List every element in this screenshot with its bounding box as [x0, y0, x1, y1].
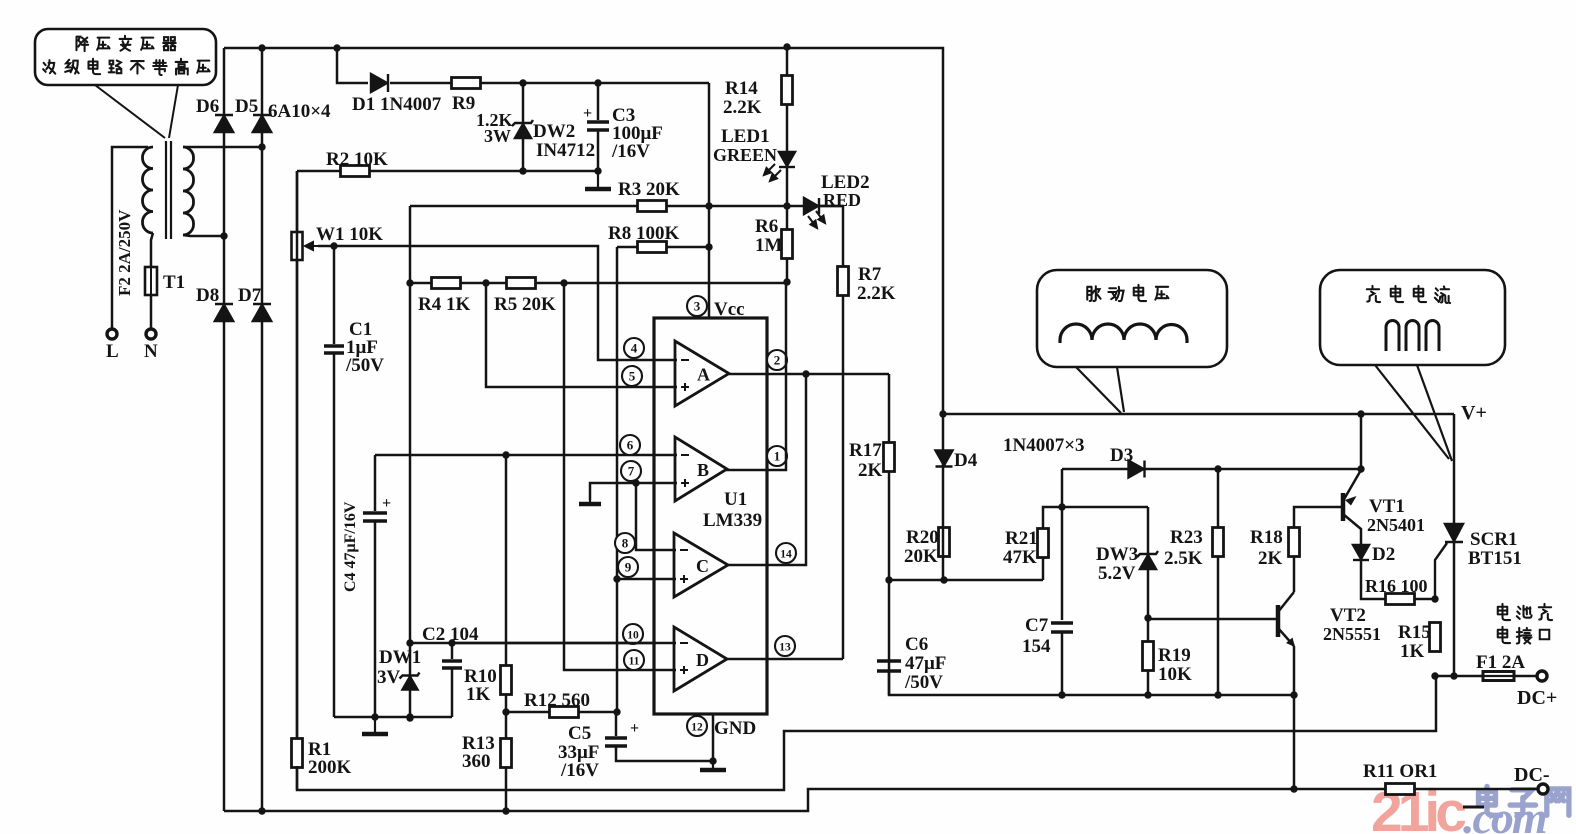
junction R3 drop / R4 line	[406, 279, 413, 286]
wire R3 left drop to DW1	[409, 206, 412, 718]
svg-text:R18: R18	[1250, 527, 1283, 548]
svg-text:5: 5	[629, 369, 636, 384]
transformer T1 core	[166, 141, 171, 239]
svg-text:R12 560: R12 560	[524, 690, 590, 711]
wire D2 to R16	[1361, 561, 1385, 599]
junction secondary top / D5 branch	[258, 143, 265, 150]
wire C3 bottom lead	[597, 130, 600, 171]
resistor R12	[550, 707, 579, 718]
op-amp U1C	[674, 533, 728, 597]
op-amp U1 LM339 box	[654, 318, 767, 714]
junction D5 branch / DC- rail	[258, 807, 265, 814]
svg-text:6: 6	[627, 438, 634, 453]
resistor R4	[432, 278, 461, 289]
svg-text:200K: 200K	[308, 757, 352, 778]
junction wiper / C1	[330, 242, 337, 249]
junction R8 drop / C plus line	[613, 575, 620, 582]
svg-text:2K: 2K	[1258, 548, 1283, 569]
wire R1 branch top	[296, 171, 299, 739]
junction R8 drop / R12 C5	[613, 708, 620, 715]
junction R4 R5 midpoint	[482, 279, 489, 286]
wire B minus line	[375, 454, 677, 457]
wire W1 R1 branch	[296, 171, 299, 790]
junction R6 bottom / R4R5 line	[783, 278, 790, 285]
zener DW3	[1137, 551, 1158, 569]
capacitor C7	[1051, 623, 1073, 632]
wire secondary top to D5 node	[183, 146, 262, 149]
svg-text:3: 3	[694, 299, 701, 314]
wire C2 top lead	[451, 643, 454, 659]
LED LED1	[779, 152, 795, 167]
wire rail from R1 bottom	[297, 676, 1436, 790]
junction Vcc / R8 line	[705, 243, 712, 250]
junction V+ rail / VT1	[1357, 410, 1364, 417]
svg-text:47μF: 47μF	[905, 653, 946, 674]
junction DW1 bottom	[406, 713, 413, 720]
wire B plus ground stub	[590, 483, 677, 500]
junction C3 top	[594, 79, 601, 86]
op-amp U1A input signs	[681, 360, 689, 391]
svg-text:W1 10K: W1 10K	[316, 224, 383, 245]
svg-text:7: 7	[628, 464, 635, 479]
svg-text:10: 10	[627, 630, 639, 642]
wire C3 top lead	[597, 83, 600, 120]
zener DW2	[512, 120, 533, 138]
svg-text:R23: R23	[1170, 527, 1203, 548]
svg-text:R4 1K: R4 1K	[418, 294, 470, 315]
svg-text:3V: 3V	[377, 667, 401, 688]
watermark 21ic.com	[1371, 780, 1466, 834]
svg-text:R21: R21	[1005, 528, 1038, 549]
svg-text:N: N	[144, 341, 158, 362]
balloon1 text mai dong dian ya	[1087, 285, 1168, 301]
svg-text:360: 360	[462, 751, 491, 772]
wire primary bottom to fuse	[151, 233, 153, 267]
junction R10 R12 R13	[502, 708, 509, 715]
svg-text:VT1: VT1	[1369, 496, 1405, 517]
wire B output to R6 node	[726, 282, 786, 470]
junction C4 bottom	[371, 713, 378, 720]
capacitor C3	[587, 122, 609, 130]
resistor R3	[638, 201, 667, 212]
junction Vcc / R3 line	[705, 202, 712, 209]
svg-text:A: A	[697, 365, 710, 385]
junction B plus / C minus tie	[632, 479, 639, 486]
svg-text:1M: 1M	[755, 235, 783, 256]
wire C7 bottom lead	[1061, 632, 1064, 695]
svg-text:D5: D5	[235, 96, 258, 117]
diode D4	[936, 451, 953, 467]
svg-text:B: B	[697, 460, 709, 480]
resistor R7	[838, 267, 849, 296]
svg-text:R3 20K: R3 20K	[618, 179, 680, 200]
fuse F1	[1483, 672, 1514, 681]
junction R21 line / C7 branch	[1058, 503, 1065, 510]
svg-text:D: D	[696, 650, 709, 670]
wire D6-D8 branch	[223, 48, 226, 811]
pin 14	[776, 543, 796, 563]
wire C7 branch top	[1061, 469, 1064, 620]
wire W1 wiper to pin4	[318, 246, 677, 360]
wire C4 bottom lead	[374, 521, 377, 718]
svg-text:C5: C5	[568, 723, 591, 744]
svg-text:+: +	[630, 720, 639, 737]
wire C6 bottom corner	[889, 671, 1294, 695]
svg-text:D2: D2	[1372, 544, 1395, 565]
svg-text:F1 2A: F1 2A	[1476, 652, 1525, 673]
svg-text:12: 12	[691, 722, 703, 734]
junction top rail / R14	[783, 43, 790, 50]
svg-text:GREEN: GREEN	[713, 145, 777, 165]
svg-text:2.2K: 2.2K	[723, 97, 762, 118]
wire V+ rail	[943, 413, 1454, 416]
svg-text:8: 8	[622, 536, 629, 551]
capacitor C1	[324, 346, 344, 353]
wire secondary bottom to D6 node	[183, 235, 224, 236]
junction top rail / D5 branch	[258, 44, 265, 51]
svg-text:/50V: /50V	[904, 672, 943, 693]
wire C plus line	[617, 578, 676, 581]
wire top positive rail	[224, 48, 943, 414]
junction R17 bottom	[885, 576, 892, 583]
wire D4 R20 branch	[942, 414, 945, 580]
resistor R15	[1430, 623, 1441, 652]
wire D1 to R9	[390, 82, 452, 85]
pin 12	[687, 716, 707, 736]
svg-text:/50V: /50V	[345, 355, 384, 376]
fuse F2	[145, 267, 157, 295]
svg-text:2N5401: 2N5401	[1367, 515, 1425, 535]
pin 3	[687, 296, 707, 316]
label battery port line1	[1498, 604, 1552, 620]
wire bottom tie C1 C4 DW1 C2	[334, 716, 452, 719]
resistor R18	[1289, 528, 1300, 557]
wire R23 branch	[1217, 469, 1220, 695]
svg-text:1K: 1K	[466, 684, 491, 705]
resistor R13	[501, 739, 512, 768]
wire L terminal to primary top	[112, 147, 148, 333]
junction A output / AC tie	[802, 370, 809, 377]
op-amp U1D input signs	[680, 643, 688, 674]
LED2 arrows	[808, 211, 825, 228]
svg-text:13: 13	[779, 642, 791, 654]
svg-text:20K: 20K	[904, 546, 938, 567]
svg-text:6A10×4: 6A10×4	[268, 101, 331, 122]
junction C3 bottom / R2 line	[594, 167, 601, 174]
svg-text:L: L	[106, 341, 119, 362]
wire R18 bottom to VT2 collector	[1293, 557, 1296, 592]
wire R2 line	[297, 170, 598, 173]
wire SCR branch	[1453, 414, 1456, 676]
terminal DC+	[1537, 671, 1547, 681]
wire R8 line	[617, 246, 709, 249]
svg-text:BT151: BT151	[1468, 548, 1522, 569]
junction top rail / D1 drop	[333, 44, 340, 51]
svg-text:SCR1: SCR1	[1470, 529, 1518, 550]
transformer T1 primary winding	[142, 147, 153, 233]
transistor VT2	[1278, 592, 1295, 647]
wire R17 R20 R21 bottoms	[889, 579, 1043, 582]
junction DW3 / R19 / base line	[1144, 614, 1151, 621]
svg-text:R2 10K: R2 10K	[326, 149, 388, 170]
svg-text:+: +	[583, 105, 592, 122]
resistor R6	[782, 230, 793, 259]
wire R8 drop long	[616, 247, 619, 712]
terminal N	[146, 329, 156, 339]
svg-text:D1 1N4007: D1 1N4007	[352, 94, 442, 115]
wire Vcc drop	[708, 83, 711, 318]
svg-text:1N4007×3: 1N4007×3	[1003, 435, 1085, 456]
svg-text:+: +	[382, 495, 391, 512]
svg-text:DW2: DW2	[533, 121, 575, 142]
pin 5	[622, 366, 642, 386]
resistor R17	[884, 443, 895, 472]
transformer T1 secondary winding	[183, 147, 194, 235]
svg-text:D6: D6	[196, 96, 219, 117]
svg-text:.com: .com	[1463, 792, 1546, 834]
ground B plus	[579, 500, 601, 504]
svg-text:R5 20K: R5 20K	[494, 294, 556, 315]
wire R18 top to VT1 base	[1294, 507, 1341, 527]
pin 13	[775, 636, 795, 656]
diode D1	[371, 74, 388, 92]
resistor R8	[638, 242, 667, 253]
svg-text:GND: GND	[714, 718, 756, 739]
svg-text:C7: C7	[1025, 615, 1049, 636]
junction R10 top	[502, 451, 509, 458]
wire C2 D-minus line	[410, 642, 656, 645]
stray mark near watermark	[1463, 806, 1484, 809]
wire VT2 emitter drop	[1293, 646, 1296, 789]
wire DW3 branch	[1147, 507, 1150, 695]
junction R5 right	[560, 279, 567, 286]
op-amp U1B	[675, 437, 727, 501]
svg-text:C6: C6	[905, 634, 928, 655]
junction secondary bottom / D6 branch	[220, 232, 227, 239]
svg-text:R15: R15	[1398, 622, 1431, 643]
resistor R5	[507, 278, 536, 289]
junction R20 bottom	[940, 576, 947, 583]
LED1 arrows	[764, 164, 781, 181]
resistor R16	[1386, 594, 1415, 605]
svg-text:R6: R6	[755, 216, 778, 237]
balloon pulsating voltage	[1037, 270, 1227, 367]
resistor R20	[939, 528, 950, 557]
pin 11	[624, 650, 644, 670]
transistor VT1	[1343, 470, 1361, 546]
ground below C4	[362, 717, 388, 734]
wire D output to R7	[726, 658, 843, 661]
svg-text:2K: 2K	[858, 460, 883, 481]
junction emitter / ground line	[1290, 691, 1297, 698]
wire R21 top line	[1043, 507, 1148, 580]
wire D minus line	[452, 642, 676, 645]
svg-text:DC-: DC-	[1514, 764, 1550, 786]
svg-text:F2 2A/250V: F2 2A/250V	[115, 209, 134, 296]
diode D3	[1129, 461, 1145, 478]
wire C5 top lead	[615, 712, 618, 736]
junction SCR cathode / F1 line	[1450, 672, 1457, 679]
svg-text:/16V: /16V	[611, 141, 650, 162]
pin 8	[615, 533, 635, 553]
pin 7	[621, 461, 641, 481]
svg-text:2N5551: 2N5551	[1323, 624, 1381, 644]
wire AC output tie	[728, 374, 806, 565]
svg-text:DW1: DW1	[379, 647, 421, 668]
LED LED2	[804, 198, 819, 214]
wire R3 line	[410, 205, 843, 208]
balloon1 pointer	[1076, 367, 1124, 413]
svg-text:T1: T1	[163, 272, 185, 293]
svg-text:2.5K: 2.5K	[1164, 548, 1203, 569]
wire LED2 to R7	[820, 206, 843, 659]
svg-text:DW3: DW3	[1096, 544, 1138, 565]
wire C5 bottom to GND stub	[616, 746, 713, 761]
capacitor C5	[605, 738, 627, 746]
wire D3 line	[1062, 468, 1361, 471]
svg-text:C: C	[696, 556, 709, 576]
junction DW2 bottom / R2 line	[519, 167, 526, 174]
resistor R10	[501, 666, 512, 695]
thyristor SCR1	[1435, 524, 1463, 599]
svg-text:1K: 1K	[1400, 641, 1425, 662]
balloon1 waveform scallops	[1060, 324, 1187, 343]
resistor R21	[1038, 529, 1049, 558]
junction DW2 top	[519, 79, 526, 86]
svg-text:47K: 47K	[1003, 547, 1037, 568]
watermark dianziwang	[1479, 786, 1569, 816]
junction D3 line / VT1 emitter	[1357, 465, 1364, 472]
zener DW1	[400, 673, 420, 690]
resistor R23	[1213, 528, 1224, 557]
svg-text:R9: R9	[452, 93, 475, 114]
wire C4 top lead	[374, 455, 377, 511]
callout pointer	[95, 85, 178, 138]
pin 9	[618, 557, 638, 577]
resistor R9	[452, 78, 481, 89]
ground below C3	[585, 171, 611, 189]
wire R10 branch	[505, 455, 508, 712]
callout text line1 jiang ya bian ya qi	[77, 36, 176, 51]
op-amp U1B input signs	[681, 455, 689, 487]
wire R5 right to pin11	[564, 283, 676, 670]
svg-text:VT2: VT2	[1330, 605, 1366, 626]
wire R11 to DC- terminal	[1415, 788, 1537, 791]
wire R9 to Vcc corner	[480, 82, 709, 85]
wire DC- rail	[224, 789, 1385, 811]
junction C7 bottom	[1058, 691, 1065, 698]
wire R12 line	[506, 711, 617, 714]
wire F1 line	[1435, 675, 1537, 678]
wire U1 GND pin lead	[712, 714, 715, 761]
junction emitter / DC- rail	[1290, 785, 1297, 792]
junction C2 top	[448, 639, 455, 646]
wire R4R5 mid to pin5	[486, 283, 677, 387]
ground U1 pin12	[700, 761, 726, 770]
wire VT2 base line	[1148, 618, 1276, 621]
wire V+ to VT1 emitter	[1360, 414, 1363, 469]
svg-text:D8: D8	[196, 285, 219, 306]
pin 2	[767, 350, 787, 370]
potentiometer W1	[292, 232, 319, 260]
svg-text:/16V: /16V	[560, 760, 599, 781]
diode D5	[253, 115, 271, 132]
junction R3 drop / C2 line	[406, 639, 413, 646]
wire R16 to R15 node	[1415, 598, 1435, 601]
wire C1 bottom lead	[333, 353, 336, 717]
balloon charging current	[1320, 270, 1505, 365]
diode D2	[1353, 545, 1369, 560]
svg-text:154: 154	[1022, 636, 1051, 657]
pin 4	[624, 338, 644, 358]
pin 1	[767, 446, 787, 466]
wire DW2 branch	[522, 83, 525, 171]
diode D7	[253, 304, 271, 321]
svg-text:2.2K: 2.2K	[857, 283, 896, 304]
svg-text:LM339: LM339	[703, 510, 762, 531]
junction V+ / D4 branch	[939, 410, 946, 417]
wire C2 bottom lead	[451, 668, 454, 717]
wire R13 branch	[505, 712, 508, 811]
svg-text:3W: 3W	[484, 126, 511, 146]
junction R23 bottom	[1214, 691, 1221, 698]
svg-text:1: 1	[774, 449, 781, 464]
svg-text:R7: R7	[858, 264, 882, 285]
diode D8	[215, 304, 233, 321]
svg-text:R17: R17	[849, 440, 882, 461]
wire A output line	[729, 373, 889, 376]
wire D5-D7 branch	[261, 48, 264, 811]
svg-text:R20: R20	[906, 527, 939, 548]
junction R13 bottom	[502, 807, 509, 814]
pin 10	[623, 624, 643, 644]
svg-text:R16 100: R16 100	[1365, 576, 1428, 596]
junction R16 / R15 / gate	[1431, 595, 1438, 602]
svg-text:D7: D7	[238, 285, 262, 306]
svg-text:C4 47μF/16V: C4 47μF/16V	[342, 501, 359, 592]
balloon2 text chong dian dian liu	[1367, 286, 1450, 303]
junction R19 bottom	[1144, 691, 1151, 698]
junction D3 line / R23	[1214, 465, 1221, 472]
wire R17 branch	[888, 374, 891, 695]
svg-text:14: 14	[780, 549, 792, 561]
svg-text:U1: U1	[724, 489, 747, 510]
svg-text:R11 OR1: R11 OR1	[1363, 761, 1437, 782]
svg-text:D4: D4	[954, 450, 978, 471]
resistor R11	[1386, 784, 1415, 795]
svg-text:DC+: DC+	[1517, 687, 1557, 709]
pin 6	[620, 435, 640, 455]
wire C1 top lead	[333, 246, 336, 344]
junction R15 bottom	[1431, 672, 1438, 679]
resistor R19	[1143, 642, 1154, 671]
resistor R14	[782, 76, 793, 105]
label battery port line2	[1498, 627, 1550, 644]
resistor R1	[292, 739, 303, 768]
op-amp U1A	[675, 341, 729, 406]
callout text line2 ci ji dian lu bu dai gao ya	[43, 59, 209, 75]
capacitor C6	[877, 661, 901, 671]
svg-text:D3: D3	[1110, 445, 1133, 466]
svg-text:11: 11	[629, 656, 640, 668]
junction R3 drop / bottom	[406, 714, 413, 721]
svg-text:2: 2	[774, 353, 781, 368]
svg-text:4: 4	[631, 341, 638, 356]
svg-text:R14: R14	[725, 78, 758, 99]
op-amp U1C input signs	[680, 550, 688, 583]
svg-text:R19: R19	[1158, 645, 1191, 666]
svg-text:LED1: LED1	[721, 126, 770, 147]
